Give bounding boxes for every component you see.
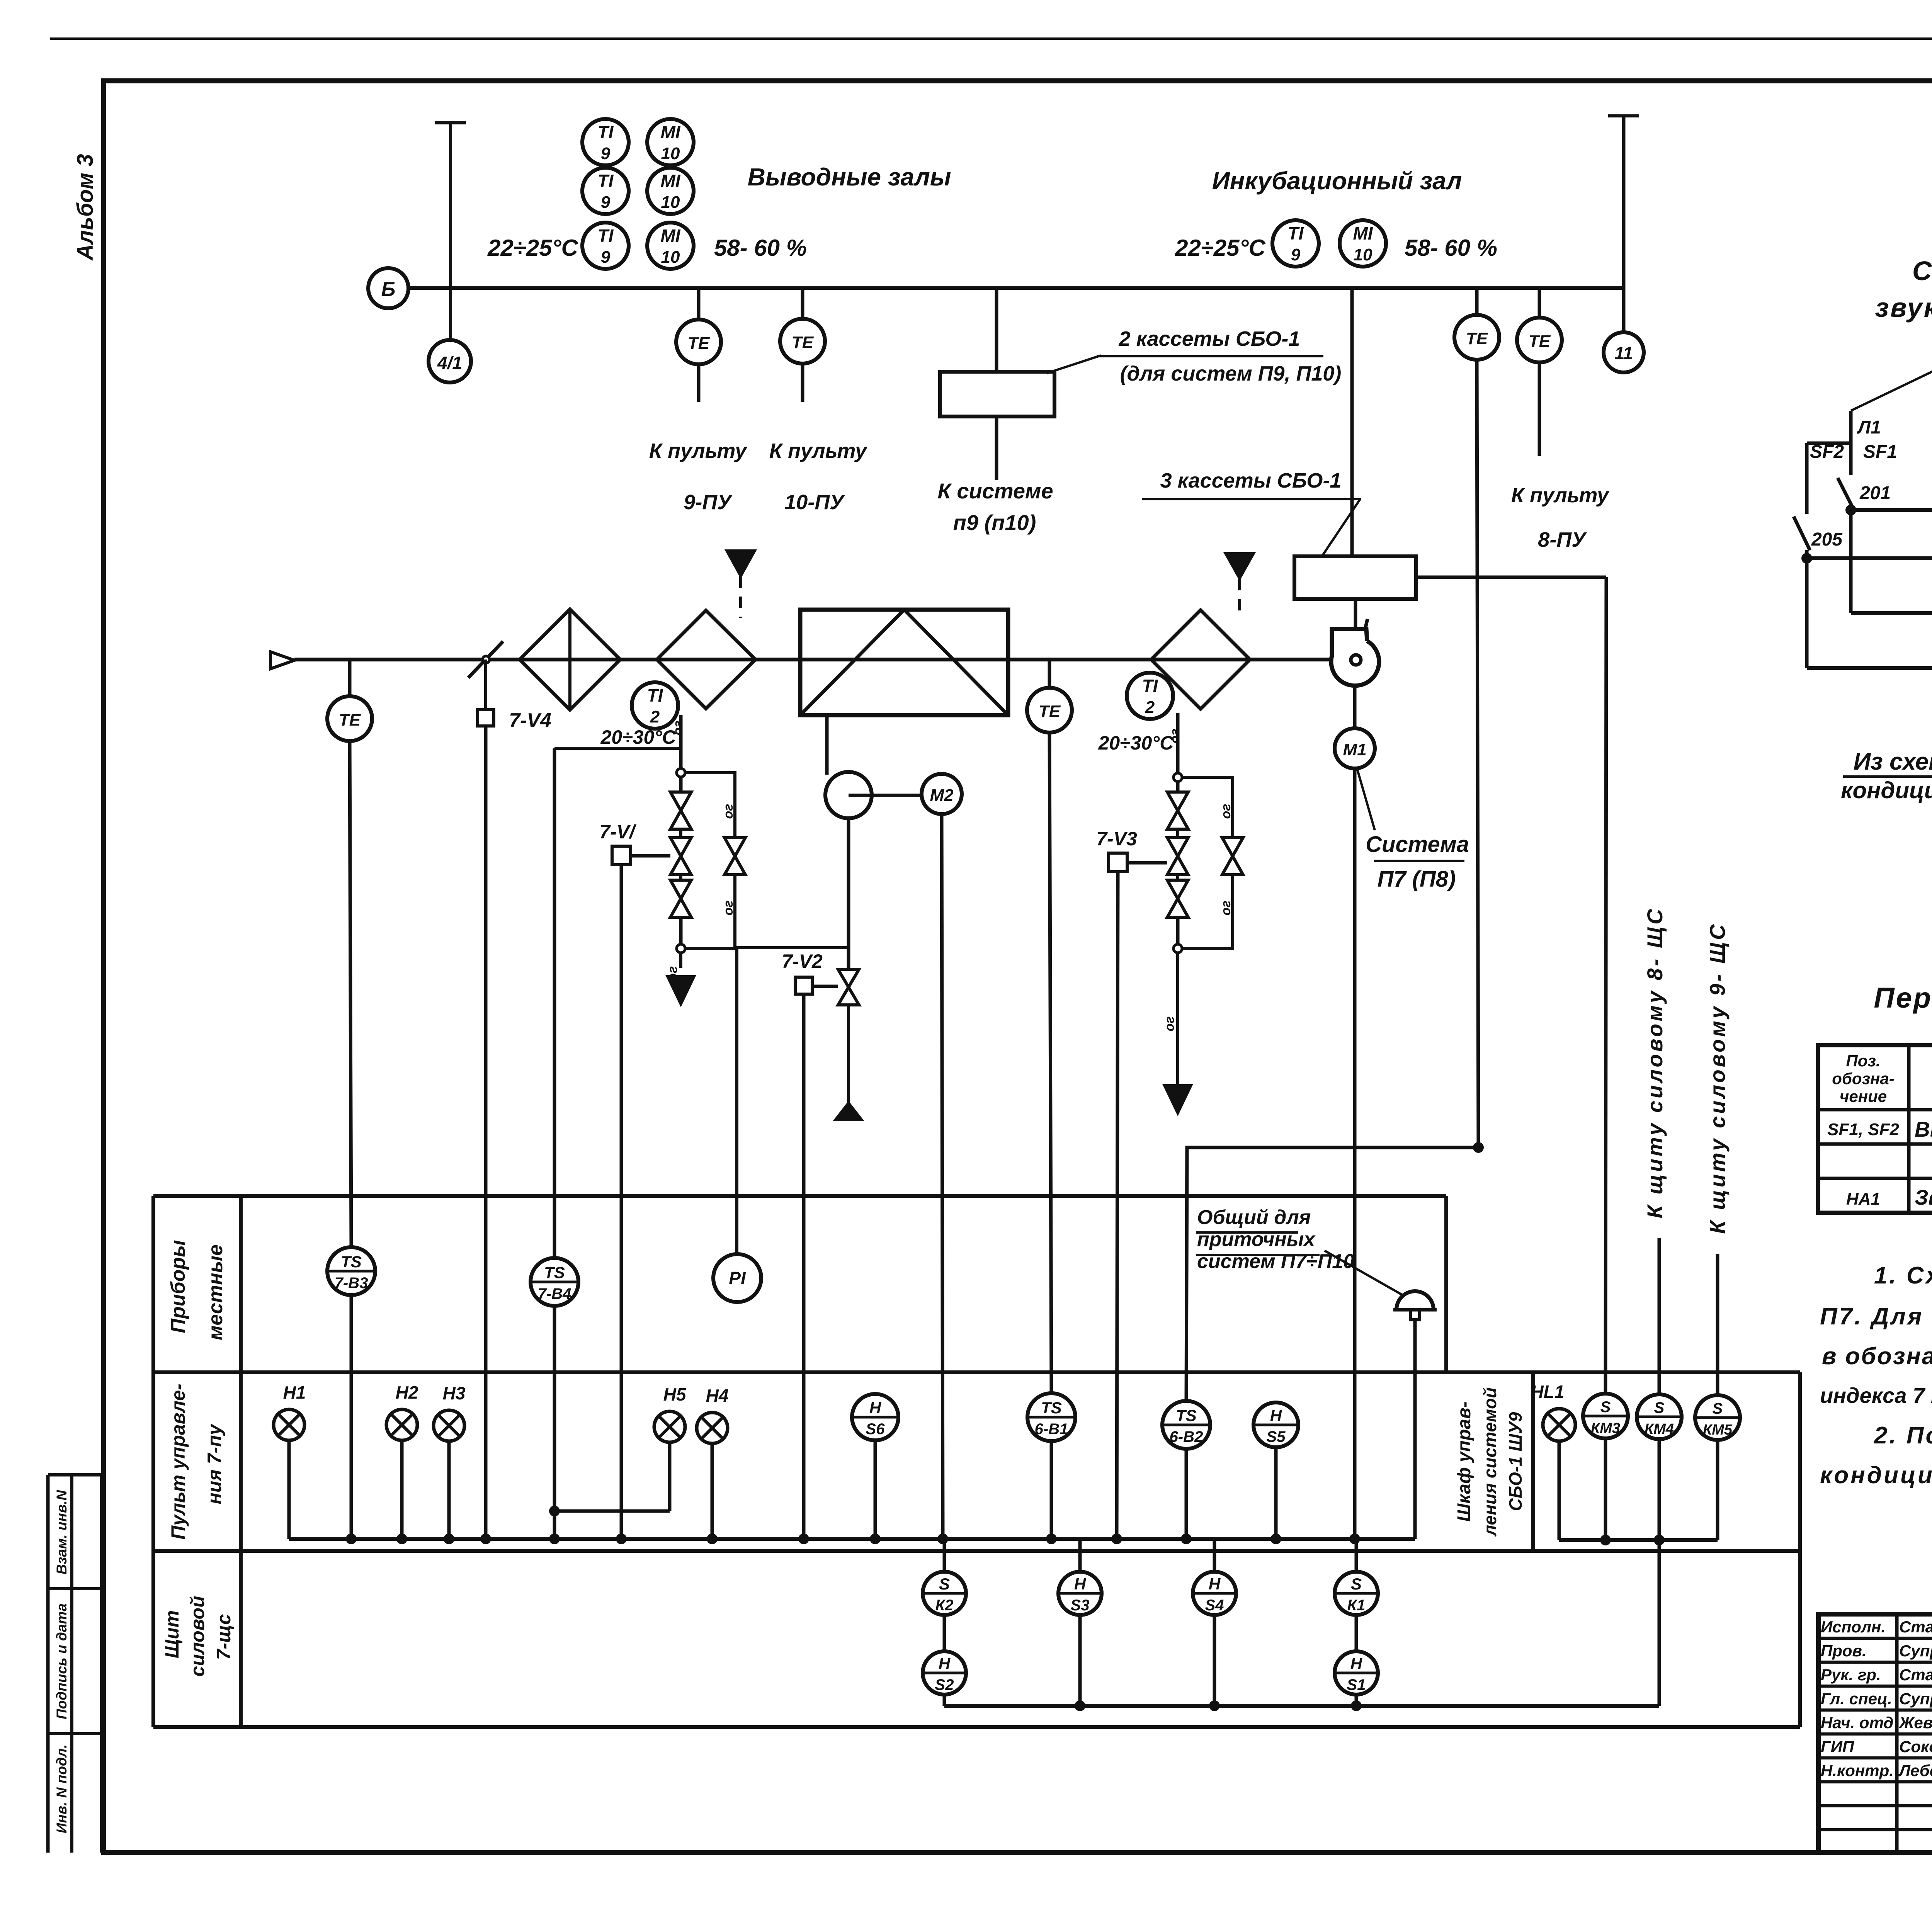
actuator square 7-V4 <box>478 710 494 726</box>
svg-text:Подпись и дата: Подпись и дата <box>54 1603 70 1719</box>
svg-text:Старицына: Старицына <box>1899 1618 1932 1636</box>
wire TE to TS 7-B3 <box>350 741 351 1247</box>
svg-text:SF1: SF1 <box>1863 442 1897 462</box>
valve V1a <box>670 792 691 811</box>
svg-text:10-ПУ: 10-ПУ <box>784 491 845 514</box>
page top rule line <box>50 37 1932 40</box>
svg-text:7-B4: 7-B4 <box>538 1285 571 1302</box>
svg-text:H1: H1 <box>283 1382 306 1402</box>
wire TE to TS6-B2 junction long drop <box>1477 360 1478 1147</box>
svg-text:Схема принципиальная: Схема принципиальная <box>1912 256 1932 286</box>
wire L1 tee <box>1807 442 1851 445</box>
instrument MI 10 row2 <box>647 168 694 214</box>
main title block frame <box>1818 1614 1932 1853</box>
breaker SF1 <box>1849 443 1853 475</box>
element table row lines <box>1818 1142 1932 1146</box>
instrument H S3 <box>1078 1539 1082 1572</box>
svg-text:Звонок бытовой, ~ 220В: Звонок бытовой, ~ 220В <box>1915 1185 1932 1209</box>
instrument 4/1 circle <box>429 340 471 382</box>
wire cassette box2 to KM3 <box>1416 576 1606 579</box>
svg-text:58- 60 %: 58- 60 % <box>714 235 807 261</box>
wire 201 drop to row3 <box>1849 510 1853 613</box>
valve V3a <box>1167 792 1188 811</box>
node upper left manifold <box>677 768 685 777</box>
element table header row line <box>1818 1108 1932 1112</box>
svg-text:КМ3: КМ3 <box>1591 1420 1620 1436</box>
svg-text:Соколовски: Соколовски <box>1899 1737 1932 1756</box>
svg-text:Рук. гр.: Рук. гр. <box>1821 1666 1881 1684</box>
svg-text:К2: К2 <box>935 1597 954 1614</box>
svg-text:КМ5: КМ5 <box>1703 1422 1733 1438</box>
svg-text:2 кассеты СБО-1: 2 кассеты СБО-1 <box>1119 327 1300 350</box>
wire TE2 to TS 6-B1 <box>1049 733 1051 1393</box>
svg-text:TI: TI <box>598 226 614 246</box>
instrument 11 circle <box>1604 332 1644 372</box>
sensor TE incubation-2 stem <box>1538 288 1541 318</box>
instrument TS 6-B2 <box>1162 1401 1210 1449</box>
valve actuator 7-V4 drop <box>484 660 487 710</box>
wire to cassette box2 <box>1350 288 1354 556</box>
fan volute <box>1331 629 1379 686</box>
duct sensor TE <box>327 696 372 741</box>
sensor TE hall-9 <box>676 320 721 364</box>
leader to box2 <box>1322 499 1360 556</box>
bypass valve left <box>724 838 745 856</box>
svg-text:6-B1: 6-B1 <box>1035 1421 1068 1438</box>
lamp H1 <box>274 1409 304 1440</box>
svg-text:в обозначении приборов , а: в обозначении приборов , аппаратов, пуль… <box>1822 1343 1932 1370</box>
valve 7-V2 body <box>838 969 859 987</box>
svg-text:TS: TS <box>544 1263 565 1282</box>
svg-text:Взам. инв.N: Взам. инв.N <box>54 1490 70 1575</box>
svg-text:2: 2 <box>650 707 660 726</box>
svg-text:ог: ог <box>671 721 685 736</box>
svg-text:SF1, SF2: SF1, SF2 <box>1827 1120 1899 1139</box>
instrument H S2 <box>943 1615 946 1651</box>
svg-text:S1: S1 <box>1347 1676 1366 1693</box>
instrument S KM4 <box>1637 1394 1682 1439</box>
svg-text:H: H <box>1209 1575 1221 1593</box>
svg-text:H4: H4 <box>706 1385 729 1406</box>
svg-text:Система: Система <box>1366 832 1469 857</box>
instrument S KM5 <box>1695 1395 1740 1440</box>
heating valve manifold right riser <box>1176 713 1180 773</box>
filter diamond 1 <box>520 609 620 710</box>
svg-text:(для систем П9, П10): (для систем П9, П10) <box>1120 362 1342 385</box>
motor M2 <box>922 774 962 814</box>
svg-text:58- 60 %: 58- 60 % <box>1405 235 1497 261</box>
svg-text:Щит: Щит <box>161 1610 183 1658</box>
console label column divider <box>239 1196 243 1727</box>
svg-text:индекса 7 на индексы 8÷10 соот: индекса 7 на индексы 8÷10 соответственно… <box>1820 1383 1932 1408</box>
left margin strip boxes <box>46 1475 50 1853</box>
svg-text:S: S <box>1600 1399 1611 1416</box>
svg-text:Супрунова: Супрунова <box>1899 1642 1932 1660</box>
svg-text:S: S <box>939 1575 950 1593</box>
svg-text:Старицына: Старицына <box>1899 1666 1932 1684</box>
svg-text:22÷25°C: 22÷25°C <box>1175 235 1266 261</box>
instrument MI 10 incubation <box>1340 220 1386 267</box>
valve V1b <box>670 838 691 856</box>
instrument TI 9 incubation <box>1272 220 1319 267</box>
svg-text:10: 10 <box>1354 245 1372 264</box>
wire row3 left <box>1851 611 1932 615</box>
svg-text:Лебская: Лебская <box>1898 1761 1932 1780</box>
svg-text:НА1: НА1 <box>1846 1190 1880 1209</box>
wire TS6-B2 riser link <box>1186 1147 1478 1401</box>
svg-text:S4: S4 <box>1205 1597 1224 1614</box>
node upper right manifold <box>1173 773 1182 782</box>
sensor tap 11 line with cap <box>1608 114 1639 117</box>
wire row1 left <box>1851 508 1932 512</box>
drain og arrow right <box>1176 953 1179 1085</box>
sensor TE incubation-2 <box>1517 318 1562 362</box>
console block outline <box>151 1196 155 1727</box>
svg-text:Жевнеров: Жевнеров <box>1898 1714 1932 1732</box>
washer pump circle <box>825 772 872 818</box>
svg-text:6-B2: 6-B2 <box>1170 1428 1203 1445</box>
wire fan to M1 <box>1353 686 1357 728</box>
svg-text:обозна-: обозна- <box>1832 1069 1894 1088</box>
sensor TE hall-9 stem <box>697 288 701 321</box>
svg-text:TS: TS <box>1176 1406 1197 1425</box>
svg-text:К системе: К системе <box>937 479 1053 503</box>
svg-text:7-B3: 7-B3 <box>335 1275 368 1292</box>
leader to box1 <box>1047 355 1101 373</box>
svg-text:H: H <box>939 1654 951 1673</box>
svg-text:TS: TS <box>1041 1399 1062 1417</box>
svg-text:MI: MI <box>660 171 680 191</box>
link 7-V1 to valve <box>631 854 670 858</box>
instrument TI 2 left <box>632 682 678 729</box>
air inlet triangle <box>270 652 294 669</box>
node lower left manifold <box>677 944 685 953</box>
svg-text:10: 10 <box>661 248 680 267</box>
instrument S KM3 <box>1583 1394 1628 1438</box>
svg-text:9: 9 <box>601 193 611 212</box>
svg-text:Поз.: Поз. <box>1846 1052 1881 1070</box>
damper slash <box>468 641 503 678</box>
svg-text:К щиту силовому 9- ЩС: К щиту силовому 9- ЩС <box>1705 922 1730 1234</box>
power row bus wire <box>944 1704 1659 1708</box>
wire bell to console bus <box>1413 1320 1417 1539</box>
svg-text:S6: S6 <box>866 1421 885 1438</box>
svg-text:Гл. спец.: Гл. спец. <box>1821 1690 1892 1708</box>
svg-text:ления системой: ления системой <box>1480 1387 1500 1537</box>
svg-text:ог: ог <box>1219 804 1233 819</box>
valve V1c <box>670 880 691 899</box>
signature table rows <box>1818 1637 1932 1640</box>
node lower right manifold <box>1173 944 1182 953</box>
valve V3b <box>1167 838 1188 856</box>
svg-text:7-V4: 7-V4 <box>509 709 551 732</box>
svg-text:П7. Для систем П8÷П10 схем: П7. Для систем П8÷П10 схема аналогична с… <box>1820 1303 1932 1330</box>
svg-text:TE: TE <box>1039 702 1061 721</box>
wire 7-V1 to console bus <box>620 865 623 1539</box>
drain arrow above heater 3 <box>1238 579 1241 619</box>
instrument TS 7-B3 <box>327 1247 375 1295</box>
steam arrow up <box>847 1005 850 1103</box>
svg-text:2. Пояснения о блокировке: 2. Пояснения о блокировке системы СБО-1 … <box>1874 1422 1932 1449</box>
svg-text:Шкаф управ-: Шкаф управ- <box>1454 1401 1475 1521</box>
wire to shield 9-ЩС <box>1716 1254 1719 1395</box>
lamp H5 <box>654 1411 685 1442</box>
svg-text:MI: MI <box>660 122 680 142</box>
svg-text:К1: К1 <box>1347 1597 1366 1614</box>
svg-text:Нач. отд: Нач. отд <box>1821 1714 1893 1732</box>
washer lambda diagonals <box>800 610 904 715</box>
svg-text:HL1: HL1 <box>1531 1382 1565 1402</box>
valve V3c <box>1167 880 1188 899</box>
wire L1 <box>1849 411 1853 443</box>
wire to shield 8-ЩС <box>1658 1238 1661 1394</box>
instrument S K1 <box>1355 1539 1358 1572</box>
svg-text:ог: ог <box>1219 901 1233 916</box>
svg-text:Общий для: Общий для <box>1197 1206 1311 1229</box>
main duct line <box>294 658 1351 661</box>
svg-text:Л1: Л1 <box>1857 417 1881 438</box>
svg-text:20÷30°C: 20÷30°C <box>1098 732 1174 754</box>
breaker SF2 <box>1805 443 1809 514</box>
svg-text:СБО-1 ШУ9: СБО-1 ШУ9 <box>1505 1412 1526 1511</box>
svg-text:H5: H5 <box>663 1384 687 1404</box>
lamp H2 <box>386 1409 417 1440</box>
svg-text:2: 2 <box>1145 698 1155 717</box>
KM4 drop to power row bus <box>1658 1540 1661 1706</box>
duct sensor TE stem <box>348 660 352 696</box>
svg-text:TE: TE <box>792 333 814 352</box>
svg-text:Пульт управле-: Пульт управле- <box>167 1384 189 1539</box>
svg-text:TE: TE <box>339 711 361 729</box>
svg-text:S: S <box>1351 1575 1362 1593</box>
instrument H S5 <box>1253 1402 1298 1447</box>
instrument H S4 <box>1213 1539 1216 1572</box>
hall wall line A <box>408 286 1624 290</box>
svg-text:S5: S5 <box>1267 1428 1286 1445</box>
svg-text:3 кассеты СБО-1: 3 кассеты СБО-1 <box>1160 469 1342 492</box>
console bus wire <box>289 1537 1415 1541</box>
console bus junction dots <box>346 1533 357 1544</box>
instrument TS 6-B1 <box>1027 1393 1075 1441</box>
svg-text:Инв. N подл.: Инв. N подл. <box>54 1744 70 1833</box>
svg-text:TE: TE <box>1466 329 1488 348</box>
svg-text:9-ПУ: 9-ПУ <box>684 491 733 514</box>
wire 7-V3 to console bus <box>1117 872 1118 1539</box>
svg-text:11: 11 <box>1614 343 1633 363</box>
svg-text:TE: TE <box>1529 332 1551 351</box>
svg-text:силовой: силовой <box>187 1596 208 1676</box>
instrument TI 2 right <box>1127 673 1173 719</box>
svg-text:Инкубационный зал: Инкубационный зал <box>1212 167 1462 195</box>
svg-text:TI: TI <box>1288 223 1304 243</box>
wire M2 to console bus <box>942 814 943 1539</box>
svg-text:201: 201 <box>1859 483 1891 503</box>
heater diamond 2 <box>657 610 755 709</box>
node 201 <box>1845 505 1856 515</box>
wire 7-V4 to console bus <box>484 726 488 1539</box>
instrument TI 9 row1 <box>582 119 629 165</box>
actuator square 7-V3 <box>1109 853 1127 872</box>
instrument MI 10 row1 <box>647 119 694 165</box>
svg-text:Приборы: Приборы <box>167 1240 189 1333</box>
svg-text:ния 7-пу: ния 7-пу <box>204 1423 225 1504</box>
svg-text:звуковой сигнализации: звуковой сигнализации <box>1875 292 1932 323</box>
air washer chamber <box>800 610 1008 715</box>
svg-text:4/1: 4/1 <box>437 353 462 373</box>
leader Система П7 П8 <box>1357 768 1375 830</box>
svg-text:чение: чение <box>1840 1087 1887 1105</box>
instrument S K2 <box>943 1539 946 1572</box>
svg-text:9: 9 <box>601 144 611 163</box>
svg-text:Из схемы управления: Из схемы управления <box>1854 748 1932 775</box>
svg-text:H: H <box>869 1399 882 1417</box>
svg-text:7-щс: 7-щс <box>213 1614 235 1660</box>
svg-text:22÷25°C: 22÷25°C <box>487 235 578 261</box>
cassette box 2 kassety <box>940 372 1054 416</box>
cassette box 3 kassety <box>1294 556 1416 599</box>
svg-text:TI: TI <box>1142 676 1158 696</box>
svg-text:SF2: SF2 <box>1810 442 1844 462</box>
svg-text:7-V2: 7-V2 <box>782 950 823 972</box>
svg-text:кондиционерами П7÷П10- см: кондиционерами П7÷П10- см. лист 2 <box>1820 1462 1932 1489</box>
svg-text:ГИП: ГИП <box>1821 1737 1854 1756</box>
cabinet ШУ9 cell <box>1531 1372 1535 1551</box>
common bell symbol <box>1396 1291 1434 1310</box>
lamp H3 <box>434 1410 464 1441</box>
element table frame <box>1818 1045 1932 1213</box>
actuator square 7-V1 <box>612 846 631 865</box>
svg-text:M2: M2 <box>930 786 954 805</box>
instrument TI 9 row3 <box>582 223 629 269</box>
svg-text:H3: H3 <box>443 1383 466 1403</box>
svg-text:10: 10 <box>661 144 680 163</box>
svg-text:Перечень элементов принципи: Перечень элементов принципиальной схемы <box>1874 982 1932 1014</box>
svg-text:П7 (П8): П7 (П8) <box>1378 867 1456 892</box>
drain arrow above heater <box>739 576 742 618</box>
svg-text:M1: M1 <box>1343 740 1366 759</box>
bypass branch right <box>1182 777 1233 838</box>
motor M1 <box>1335 728 1375 768</box>
svg-text:S: S <box>1654 1399 1665 1416</box>
wire 205 drop to row4 <box>1805 558 1809 668</box>
svg-text:Выводные залы: Выводные залы <box>748 163 951 191</box>
instrument H S1 <box>1355 1615 1358 1651</box>
wire 7-V2 to console bus <box>802 994 806 1539</box>
svg-text:п9 (п10): п9 (п10) <box>953 510 1036 535</box>
svg-text:1. Схема функциональная: 1. Схема функциональная выполнена для си… <box>1874 1262 1932 1289</box>
element table columns <box>1907 1045 1911 1213</box>
wire M1 to console bus <box>1353 768 1357 1539</box>
instrument PI <box>713 1254 761 1302</box>
svg-text:H: H <box>1270 1406 1282 1425</box>
wire to cassette box1 <box>995 288 998 372</box>
svg-text:MI: MI <box>660 226 680 246</box>
branch to PI <box>737 948 847 1254</box>
svg-text:H: H <box>1074 1575 1087 1593</box>
sensor tap 4/1 line with cap <box>435 121 466 124</box>
sensor TE hall-10 stem <box>801 288 804 320</box>
bypass valve right <box>1222 838 1243 856</box>
heating valve manifold left riser <box>679 715 683 769</box>
svg-text:Выключатель автоматический А: Выключатель автоматический АП50Б-2МТ <box>1915 1117 1932 1141</box>
sensor TE hall-10 <box>780 319 825 364</box>
svg-text:9: 9 <box>1291 245 1301 264</box>
washer drain stem <box>825 715 829 775</box>
svg-text:H: H <box>1350 1654 1363 1673</box>
link 7-V3 to valve <box>1127 861 1167 865</box>
instrument TS 7-B4 <box>554 747 681 750</box>
svg-text:MI: MI <box>1353 223 1373 243</box>
svg-text:S3: S3 <box>1071 1597 1090 1614</box>
svg-text:приточных: приточных <box>1197 1228 1316 1251</box>
svg-text:7-V3: 7-V3 <box>1096 828 1137 850</box>
svg-text:Н.контр.: Н.контр. <box>1821 1761 1894 1780</box>
svg-text:кондиционером КНБ- 6,3 - 01: кондиционером КНБ- 6,3 - 01 <box>1841 777 1932 803</box>
svg-text:К щиту силовому 8- ЩС: К щиту силовому 8- ЩС <box>1643 906 1667 1218</box>
svg-text:местные: местные <box>204 1244 227 1340</box>
svg-text:8-ПУ: 8-ПУ <box>1538 528 1587 551</box>
svg-text:TS: TS <box>341 1253 362 1271</box>
svg-text:К пульту: К пульту <box>1511 484 1610 507</box>
sensor TE incubation-1 <box>1454 315 1499 360</box>
svg-text:ог: ог <box>721 804 736 819</box>
svg-text:К пульту: К пульту <box>649 439 748 462</box>
svg-text:Исполн.: Исполн. <box>1821 1618 1886 1636</box>
leader to L1 <box>1851 362 1932 411</box>
lamp HL1 <box>1543 1409 1575 1441</box>
svg-text:S: S <box>1713 1400 1723 1417</box>
duct sensor TE 2 stem <box>1048 660 1051 688</box>
KM cell bus wire <box>1559 1538 1718 1542</box>
svg-text:205: 205 <box>1811 529 1843 550</box>
svg-text:TI: TI <box>598 171 614 191</box>
svg-text:20÷30°C: 20÷30°C <box>600 726 677 748</box>
drain og arrow left <box>679 953 682 968</box>
svg-text:PI: PI <box>729 1268 746 1288</box>
instrument TI 9 row2 <box>582 168 629 214</box>
svg-text:Б: Б <box>381 278 396 301</box>
svg-text:H2: H2 <box>396 1382 418 1402</box>
signature table columns <box>1895 1614 1899 1853</box>
duct sensor TE 2 <box>1027 688 1072 733</box>
svg-text:Пров.: Пров. <box>1821 1642 1867 1660</box>
svg-text:КМ4: КМ4 <box>1645 1421 1674 1437</box>
svg-text:TI: TI <box>598 122 614 142</box>
heater diamond 3 <box>1151 610 1250 709</box>
svg-text:9: 9 <box>601 248 611 267</box>
svg-text:TE: TE <box>688 334 710 353</box>
svg-text:ог: ог <box>1168 729 1182 744</box>
lamp H5 jog wire <box>554 1510 670 1513</box>
leader to common bell <box>1325 1251 1403 1295</box>
pump shaft line <box>849 794 922 797</box>
svg-text:Супрунова: Супрунова <box>1899 1690 1932 1708</box>
wire row2 left <box>1807 556 1932 560</box>
wire row4 left <box>1807 666 1932 670</box>
svg-text:7-V/: 7-V/ <box>599 821 637 843</box>
lamp H4 <box>697 1413 728 1443</box>
svg-text:10: 10 <box>661 193 680 212</box>
svg-text:К пульту: К пульту <box>769 439 868 462</box>
node Б circle <box>368 268 408 308</box>
svg-text:S2: S2 <box>935 1676 954 1693</box>
actuator square 7-V2 <box>795 977 812 994</box>
pump down pipe <box>847 818 850 969</box>
svg-text:ог: ог <box>721 901 736 916</box>
instrument MI 10 row3 <box>647 223 694 269</box>
sensor TE incubation-1 stem <box>1475 288 1479 315</box>
node 205 <box>1801 553 1812 564</box>
